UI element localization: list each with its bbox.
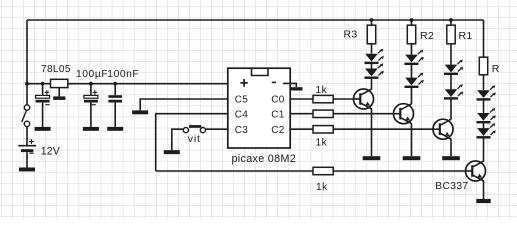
wire left vertical from rail to switch [26, 20, 28, 105]
wire Q1 emitter to ground [371, 109, 373, 157]
wire R5 to Q2 base [333, 113, 393, 115]
wire C0 to R4 [290, 98, 314, 100]
LED D5 [444, 60, 463, 75]
wire R2 to LED3 [411, 44, 413, 55]
resistor R2 [407, 20, 434, 44]
wire C5 to ground [140, 99, 228, 110]
ground battery [19, 168, 35, 172]
wire +V top rail [27, 19, 484, 21]
wire R6 to Q3 base [333, 128, 433, 130]
svg-text:picaxe 08M2: picaxe 08M2 [232, 153, 297, 165]
node junction dot left corner [25, 82, 29, 86]
wire Q4 emitter to ground [483, 181, 485, 199]
svg-text:1k: 1k [316, 85, 328, 96]
transistor Q4 BC337 [435, 161, 485, 192]
svg-text:100µF: 100µF [76, 69, 108, 80]
capacitor C2 100uF [76, 69, 108, 127]
transistor Q3 [433, 119, 453, 139]
wire D4 to Q2 collector [411, 88, 413, 104]
wire C2 to R6 [290, 128, 314, 130]
svg-text:12V: 12V [41, 145, 61, 157]
resistor R5 [313, 110, 333, 117]
wire Q2 emitter to ground [411, 123, 413, 156]
resistor R6 1k [313, 126, 333, 149]
wire minus pin to ground [283, 83, 296, 87]
node junction dot C2 [89, 82, 93, 86]
wire bottom net to resistor [156, 170, 313, 172]
wire C4 down to bottom net [156, 114, 228, 171]
wire D6 to Q3 collector [450, 100, 452, 120]
transistor Q1 [354, 89, 374, 109]
wire bottom resistor to Q4 base [333, 170, 466, 172]
LED D3 [405, 50, 424, 65]
node junction dot C3 [113, 82, 117, 86]
svg-text:C1: C1 [271, 109, 284, 120]
transistor Q2 [394, 104, 414, 124]
LED D6 [444, 84, 463, 99]
wire D9 to Q4 collector [483, 138, 485, 161]
svg-text:R3: R3 [344, 29, 358, 41]
LED D7 [477, 85, 496, 100]
svg-text:C2: C2 [271, 125, 284, 136]
wire C1 to R5 [290, 113, 314, 115]
wire switch to battery [26, 127, 28, 145]
wire button to ground [172, 129, 183, 150]
ground 78L05 [53, 96, 65, 100]
LED D1 [365, 49, 384, 64]
LED D2 [365, 64, 384, 79]
ground C3 [107, 127, 123, 131]
LED D9 [477, 123, 496, 138]
wire D7 to D8 [483, 101, 485, 114]
svg-text:C3: C3 [235, 125, 248, 136]
wire R1 to LED5 [450, 44, 452, 65]
node junction dot C1 [41, 82, 45, 86]
LED D8 [477, 108, 496, 123]
wire C3 pin to button [205, 128, 228, 130]
svg-text:100nF: 100nF [107, 69, 139, 80]
capacitor C1 electrolytic [36, 84, 50, 127]
LED D4 [405, 73, 424, 88]
wire +5V rail [27, 83, 228, 85]
svg-text:BC337: BC337 [435, 181, 468, 192]
ground C2 [83, 127, 99, 131]
wire D8 to D9 [483, 123, 485, 128]
svg-text:C4: C4 [235, 109, 248, 120]
wire D2 to Q1 collector [371, 79, 373, 90]
svg-text:R: R [492, 63, 500, 75]
svg-text:1k: 1k [316, 137, 328, 148]
regulator U2 78L05 [41, 64, 71, 97]
battery BT1 12V [18, 139, 60, 157]
wire right vertical from rail to resistor R [483, 20, 485, 57]
ground Q2 [403, 156, 421, 160]
wire D5 to D6 [450, 75, 452, 89]
ground button [164, 150, 180, 154]
svg-text:R2: R2 [420, 30, 434, 42]
ground Q1 [363, 156, 381, 160]
svg-text:C0: C0 [271, 95, 284, 106]
svg-text:C5: C5 [235, 95, 248, 106]
resistor R [479, 57, 500, 75]
wire battery to ground [26, 152, 28, 167]
resistor R7 1k bottom [313, 167, 333, 193]
wire D3 to D4 [411, 65, 413, 78]
wire R3 to LED1 [371, 44, 373, 54]
pushbutton vit [183, 125, 205, 145]
node junction dot rail R2 [410, 18, 414, 22]
wire R4 to Q1 base [333, 98, 353, 100]
wire R to LED7 [483, 75, 485, 90]
node junction dot rail R3 [370, 18, 374, 22]
svg-text:1k: 1k [316, 182, 328, 193]
resistor R4 1k [313, 85, 333, 103]
resistor R3 [344, 20, 376, 44]
ground minus pin [290, 87, 302, 90]
wire Q3 emitter to ground [450, 139, 452, 156]
ground C1 [35, 127, 51, 131]
resistor R1 [447, 20, 473, 44]
switch S1 [22, 105, 30, 127]
node junction dot rail R1 [449, 18, 453, 22]
wire D1 to D2 [371, 64, 373, 69]
IC U1 picaxe 08M2 [228, 68, 296, 165]
svg-text:vit: vit [188, 133, 201, 145]
capacitor C3 100nF [107, 69, 139, 127]
ground Q3 [442, 156, 460, 160]
svg-text:R1: R1 [459, 30, 473, 42]
ground C5 [132, 110, 148, 114]
svg-text:78L05: 78L05 [41, 64, 71, 75]
ground Q4 [476, 199, 490, 203]
